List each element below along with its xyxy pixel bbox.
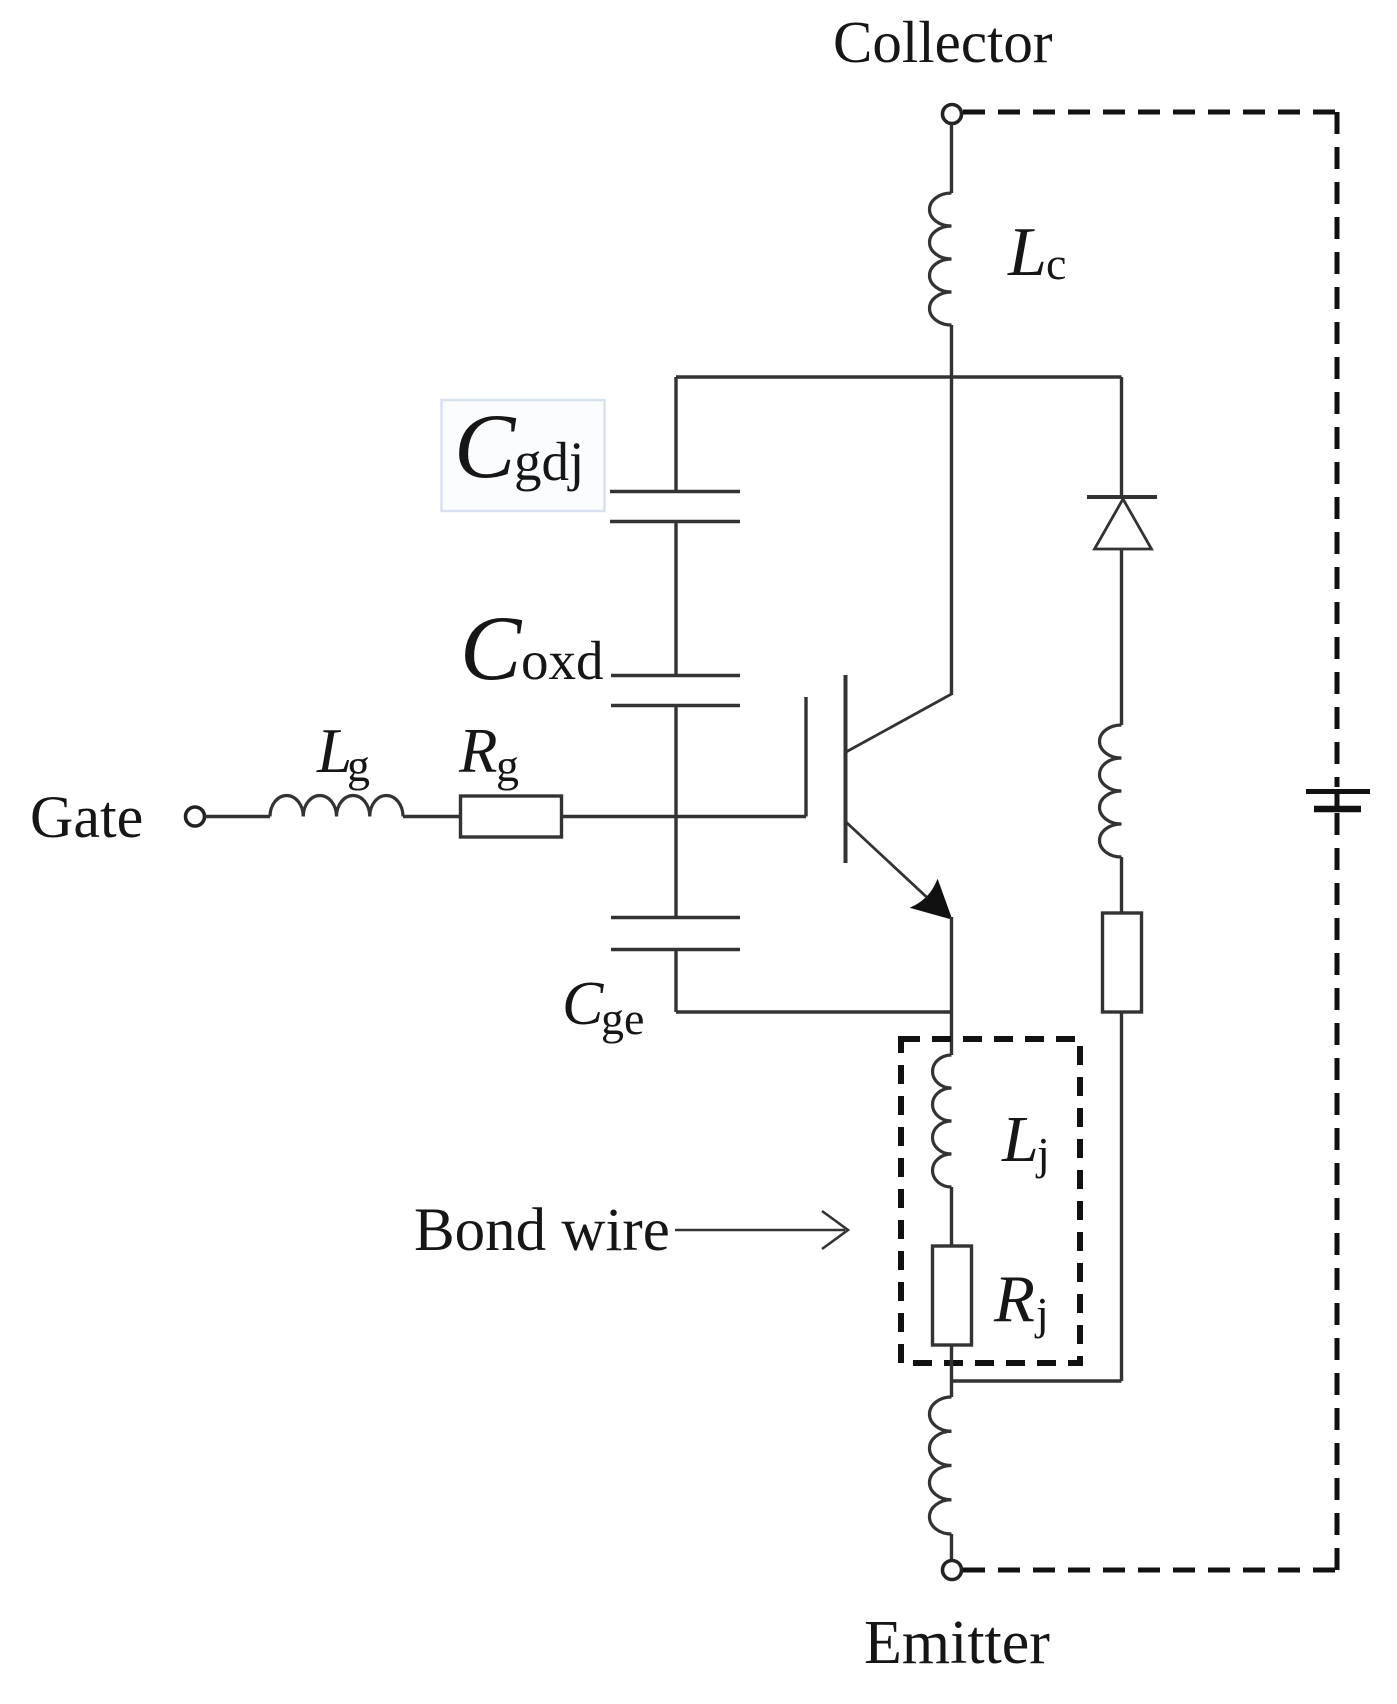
svg-text:R: R bbox=[993, 1262, 1035, 1336]
inductor (emitter lead) bbox=[929, 1397, 951, 1534]
svg-text:L: L bbox=[1001, 1103, 1039, 1176]
gate node bbox=[186, 807, 205, 826]
svg-text:L: L bbox=[1007, 214, 1047, 291]
wire Cge to bottom rail bbox=[674, 950, 677, 1013]
IGBT gate bar bbox=[804, 697, 807, 817]
lower rail joining bond wire output bbox=[952, 1379, 1122, 1382]
wire Lc down to IGBT collector diagonal (crosses top rail) bbox=[950, 325, 953, 695]
bond wire dashed box bbox=[901, 1039, 1080, 1363]
wire gate node to Lg bbox=[205, 815, 271, 818]
svg-text:R: R bbox=[458, 716, 497, 786]
capacitor Cge bbox=[611, 916, 740, 920]
capacitor Cgdj bbox=[610, 490, 740, 494]
IGBT body bar bbox=[844, 675, 848, 863]
svg-text:Bond wire: Bond wire bbox=[414, 1197, 670, 1264]
wire Rj down to emitter inductor bbox=[950, 1345, 953, 1397]
svg-text:g: g bbox=[496, 740, 519, 791]
wire Rg to IGBT gate bbox=[562, 815, 807, 818]
dashed loop right wire lower bbox=[1335, 813, 1340, 1570]
top rail wire bbox=[676, 375, 1122, 378]
svg-text:g: g bbox=[347, 740, 370, 791]
right branch: rail down to diode bbox=[1120, 377, 1123, 497]
battery negative plate bbox=[1314, 806, 1361, 813]
Bond wire arrow bbox=[675, 1229, 845, 1232]
label highlight behind Cgdj bbox=[442, 400, 605, 511]
wire Lg to Rg bbox=[403, 815, 460, 818]
collector node bbox=[943, 105, 962, 124]
svg-text:ge: ge bbox=[601, 993, 644, 1044]
svg-text:Emitter: Emitter bbox=[864, 1609, 1050, 1677]
svg-text:j: j bbox=[1034, 1288, 1049, 1339]
battery positive plate bbox=[1306, 789, 1370, 794]
emitter node bbox=[943, 1561, 962, 1580]
inductor Lc bbox=[930, 193, 952, 325]
wire right inductor to right resistor bbox=[1120, 857, 1123, 913]
IGBT emitter diagonal bbox=[846, 822, 948, 917]
svg-text:C: C bbox=[454, 395, 517, 497]
wire rail down to Cgdj bbox=[674, 377, 677, 491]
inductor Lg bbox=[270, 795, 403, 816]
svg-text:j: j bbox=[1035, 1128, 1050, 1179]
svg-text:Collector: Collector bbox=[833, 9, 1053, 75]
inductor Lj bbox=[933, 1055, 952, 1187]
wire Coxd to Cge (gate wire crosses it) bbox=[674, 706, 677, 918]
svg-text:c: c bbox=[1046, 238, 1066, 289]
diode triangle bbox=[1095, 499, 1152, 549]
dashed loop bottom wire bbox=[963, 1568, 1337, 1573]
svg-text:oxd: oxd bbox=[521, 630, 604, 691]
wire Cgdj to Coxd bbox=[674, 522, 677, 676]
bottom rail of cap branch bbox=[676, 1010, 952, 1013]
resistor Rg bbox=[461, 796, 562, 837]
wire emitter inductor to emitter node bbox=[950, 1534, 953, 1561]
inductor (right branch) bbox=[1100, 725, 1122, 857]
battery plate link bbox=[1335, 792, 1340, 810]
wire diode to right inductor bbox=[1120, 549, 1123, 725]
wire Lj to Rj bbox=[950, 1187, 953, 1246]
diode cathode bar bbox=[1087, 495, 1157, 499]
capacitor Coxd bbox=[611, 674, 740, 678]
svg-text:Gate: Gate bbox=[30, 784, 143, 850]
dashed loop right wire upper bbox=[1335, 112, 1340, 787]
dashed loop top wire bbox=[963, 110, 1337, 115]
resistor (right branch) bbox=[1103, 913, 1142, 1012]
wire collector node to Lc bbox=[950, 124, 953, 194]
resistor Rj bbox=[933, 1246, 972, 1345]
svg-text:gdj: gdj bbox=[514, 431, 584, 492]
IGBT emitter arrowhead bbox=[913, 882, 951, 918]
wire IGBT emitter down through junction into bond-wire box bbox=[950, 917, 953, 1055]
IGBT collector diagonal bbox=[846, 694, 952, 752]
svg-text:C: C bbox=[460, 597, 523, 699]
wire right resistor down to lower rail bbox=[1120, 1012, 1123, 1381]
svg-text:C: C bbox=[562, 970, 604, 1038]
